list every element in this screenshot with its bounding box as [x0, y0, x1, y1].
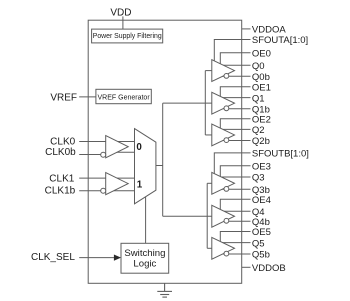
VREF wire — [79, 96, 96, 98]
output buffer Q4/Q4b — [212, 205, 235, 227]
svg-text:VDDOA: VDDOA — [252, 25, 286, 36]
pin OE1 wire — [220, 87, 250, 97]
wire mux output — [156, 165, 163, 167]
pin VDDOB stub — [242, 266, 251, 268]
svg-text:OE5: OE5 — [252, 227, 271, 238]
svg-text:Power Supply Filtering: Power Supply Filtering — [93, 33, 162, 40]
bubble Q1b — [224, 106, 229, 111]
pin SFOUTA[1:0] wire — [214, 40, 250, 61]
svg-text:OE0: OE0 — [252, 49, 271, 60]
pin Q0b wire — [220, 75, 251, 77]
wire feed to bank B (buffer 5 input) — [163, 215, 212, 217]
receiver U2 (CLK1/CLK1b) — [106, 173, 129, 195]
pin SFOUTB[1:0] wire — [214, 153, 250, 174]
arrowhead CLK_SEL — [114, 255, 121, 261]
main block outline — [88, 20, 242, 283]
wire buffer3 input stub — [205, 134, 212, 136]
svg-text:Q5b: Q5b — [252, 250, 270, 261]
bubble on CLK0b input — [101, 152, 106, 157]
wire vertical distribution — [162, 103, 164, 216]
svg-text:OE1: OE1 — [252, 83, 271, 94]
output buffer Q3/Q3b — [212, 172, 235, 194]
svg-text:Switching: Switching — [124, 248, 165, 259]
svg-text:Q3: Q3 — [252, 173, 265, 184]
pin OE2 wire — [220, 119, 250, 128]
svg-text:Logic: Logic — [133, 259, 156, 270]
svg-text:0: 0 — [136, 142, 142, 153]
VREF generator box — [96, 89, 151, 103]
svg-text:VDDOB: VDDOB — [252, 263, 286, 274]
svg-text:CLK1: CLK1 — [49, 174, 74, 185]
svg-text:Q5: Q5 — [252, 238, 265, 249]
svg-text:VREF: VREF — [50, 92, 77, 103]
pin OE3 wire — [220, 166, 250, 177]
wire buffer4 input stub — [207, 182, 212, 184]
wire CLK0b input — [79, 154, 101, 156]
svg-text:SFOUTB[1:0]: SFOUTB[1:0] — [252, 149, 309, 160]
svg-text:Q0b: Q0b — [252, 72, 270, 83]
svg-text:CLK0: CLK0 — [50, 137, 75, 148]
output buffer Q0/Q0b — [212, 60, 235, 82]
pin Q2 wire — [216, 128, 251, 130]
bubble Q4b — [224, 218, 229, 223]
pin Q1b wire — [220, 108, 251, 110]
svg-text:Q2b: Q2b — [252, 136, 270, 147]
wire receiver A lower output to mux — [110, 151, 135, 153]
ground — [157, 283, 172, 297]
bubble Q2b — [224, 138, 229, 143]
svg-text:CLK_SEL: CLK_SEL — [31, 252, 75, 263]
pin Q5 wire — [216, 242, 251, 244]
svg-text:Q1: Q1 — [252, 93, 265, 104]
receiver U1 (CLK0/CLK0b) — [106, 136, 129, 158]
output buffer Q1/Q1b — [212, 92, 235, 114]
svg-text:VDD: VDD — [110, 7, 131, 18]
pin labels right — [252, 25, 309, 274]
pin OE4 wire — [220, 199, 250, 209]
pin OE5 wire — [220, 232, 250, 242]
switching logic box — [121, 243, 169, 273]
pin Q3 wire — [216, 176, 251, 178]
svg-text:OE3: OE3 — [252, 161, 271, 172]
pin VDDOA stub — [242, 28, 251, 30]
pin Q3b wire — [220, 188, 251, 190]
output buffer Q5/Q5b — [212, 237, 235, 259]
wire CLK0 input through receiver to mux — [79, 141, 134, 143]
wire CLK1b input through receiver to mux — [79, 190, 134, 192]
svg-text:OE2: OE2 — [252, 114, 271, 125]
wire feed to bank A (buffer 2 input) — [163, 102, 212, 104]
power supply filtering box — [92, 29, 163, 43]
wire mux select from switching logic — [145, 197, 147, 243]
svg-text:Q2: Q2 — [252, 125, 265, 136]
svg-text:CLK1b: CLK1b — [45, 186, 76, 197]
svg-text:CLK0b: CLK0b — [45, 147, 76, 158]
wire buffer6 input stub — [207, 247, 212, 249]
pin Q5b wire — [220, 253, 251, 255]
wire bank B input bus — [206, 183, 208, 248]
VDD wire — [122, 16, 124, 29]
pin Q0 wire — [216, 64, 251, 66]
svg-text:VREF Generator: VREF Generator — [98, 95, 151, 102]
bubble Q0b — [224, 74, 229, 79]
pin Q2b wire — [220, 140, 251, 142]
bubble Q5b — [224, 251, 229, 256]
wire bank A input bus — [204, 71, 206, 135]
bubble Q3b — [224, 187, 229, 192]
pin Q4 wire — [216, 210, 251, 212]
output buffer Q2/Q2b — [212, 124, 235, 146]
wire buffer1 input stub — [205, 70, 212, 72]
wire CLK1 input through receiver to mux — [79, 177, 134, 179]
pin OE0 wire — [220, 53, 250, 64]
bubble on CLK1b input — [101, 188, 106, 193]
svg-text:OE4: OE4 — [252, 195, 271, 206]
svg-text:Q0: Q0 — [252, 61, 265, 72]
svg-text:1: 1 — [137, 180, 143, 191]
pin Q4b wire — [220, 220, 251, 222]
wire CLK_SEL input — [79, 257, 114, 259]
svg-text:SFOUTA[1:0]: SFOUTA[1:0] — [252, 35, 308, 46]
mux M1 — [135, 129, 156, 204]
pin Q1 wire — [216, 97, 251, 99]
